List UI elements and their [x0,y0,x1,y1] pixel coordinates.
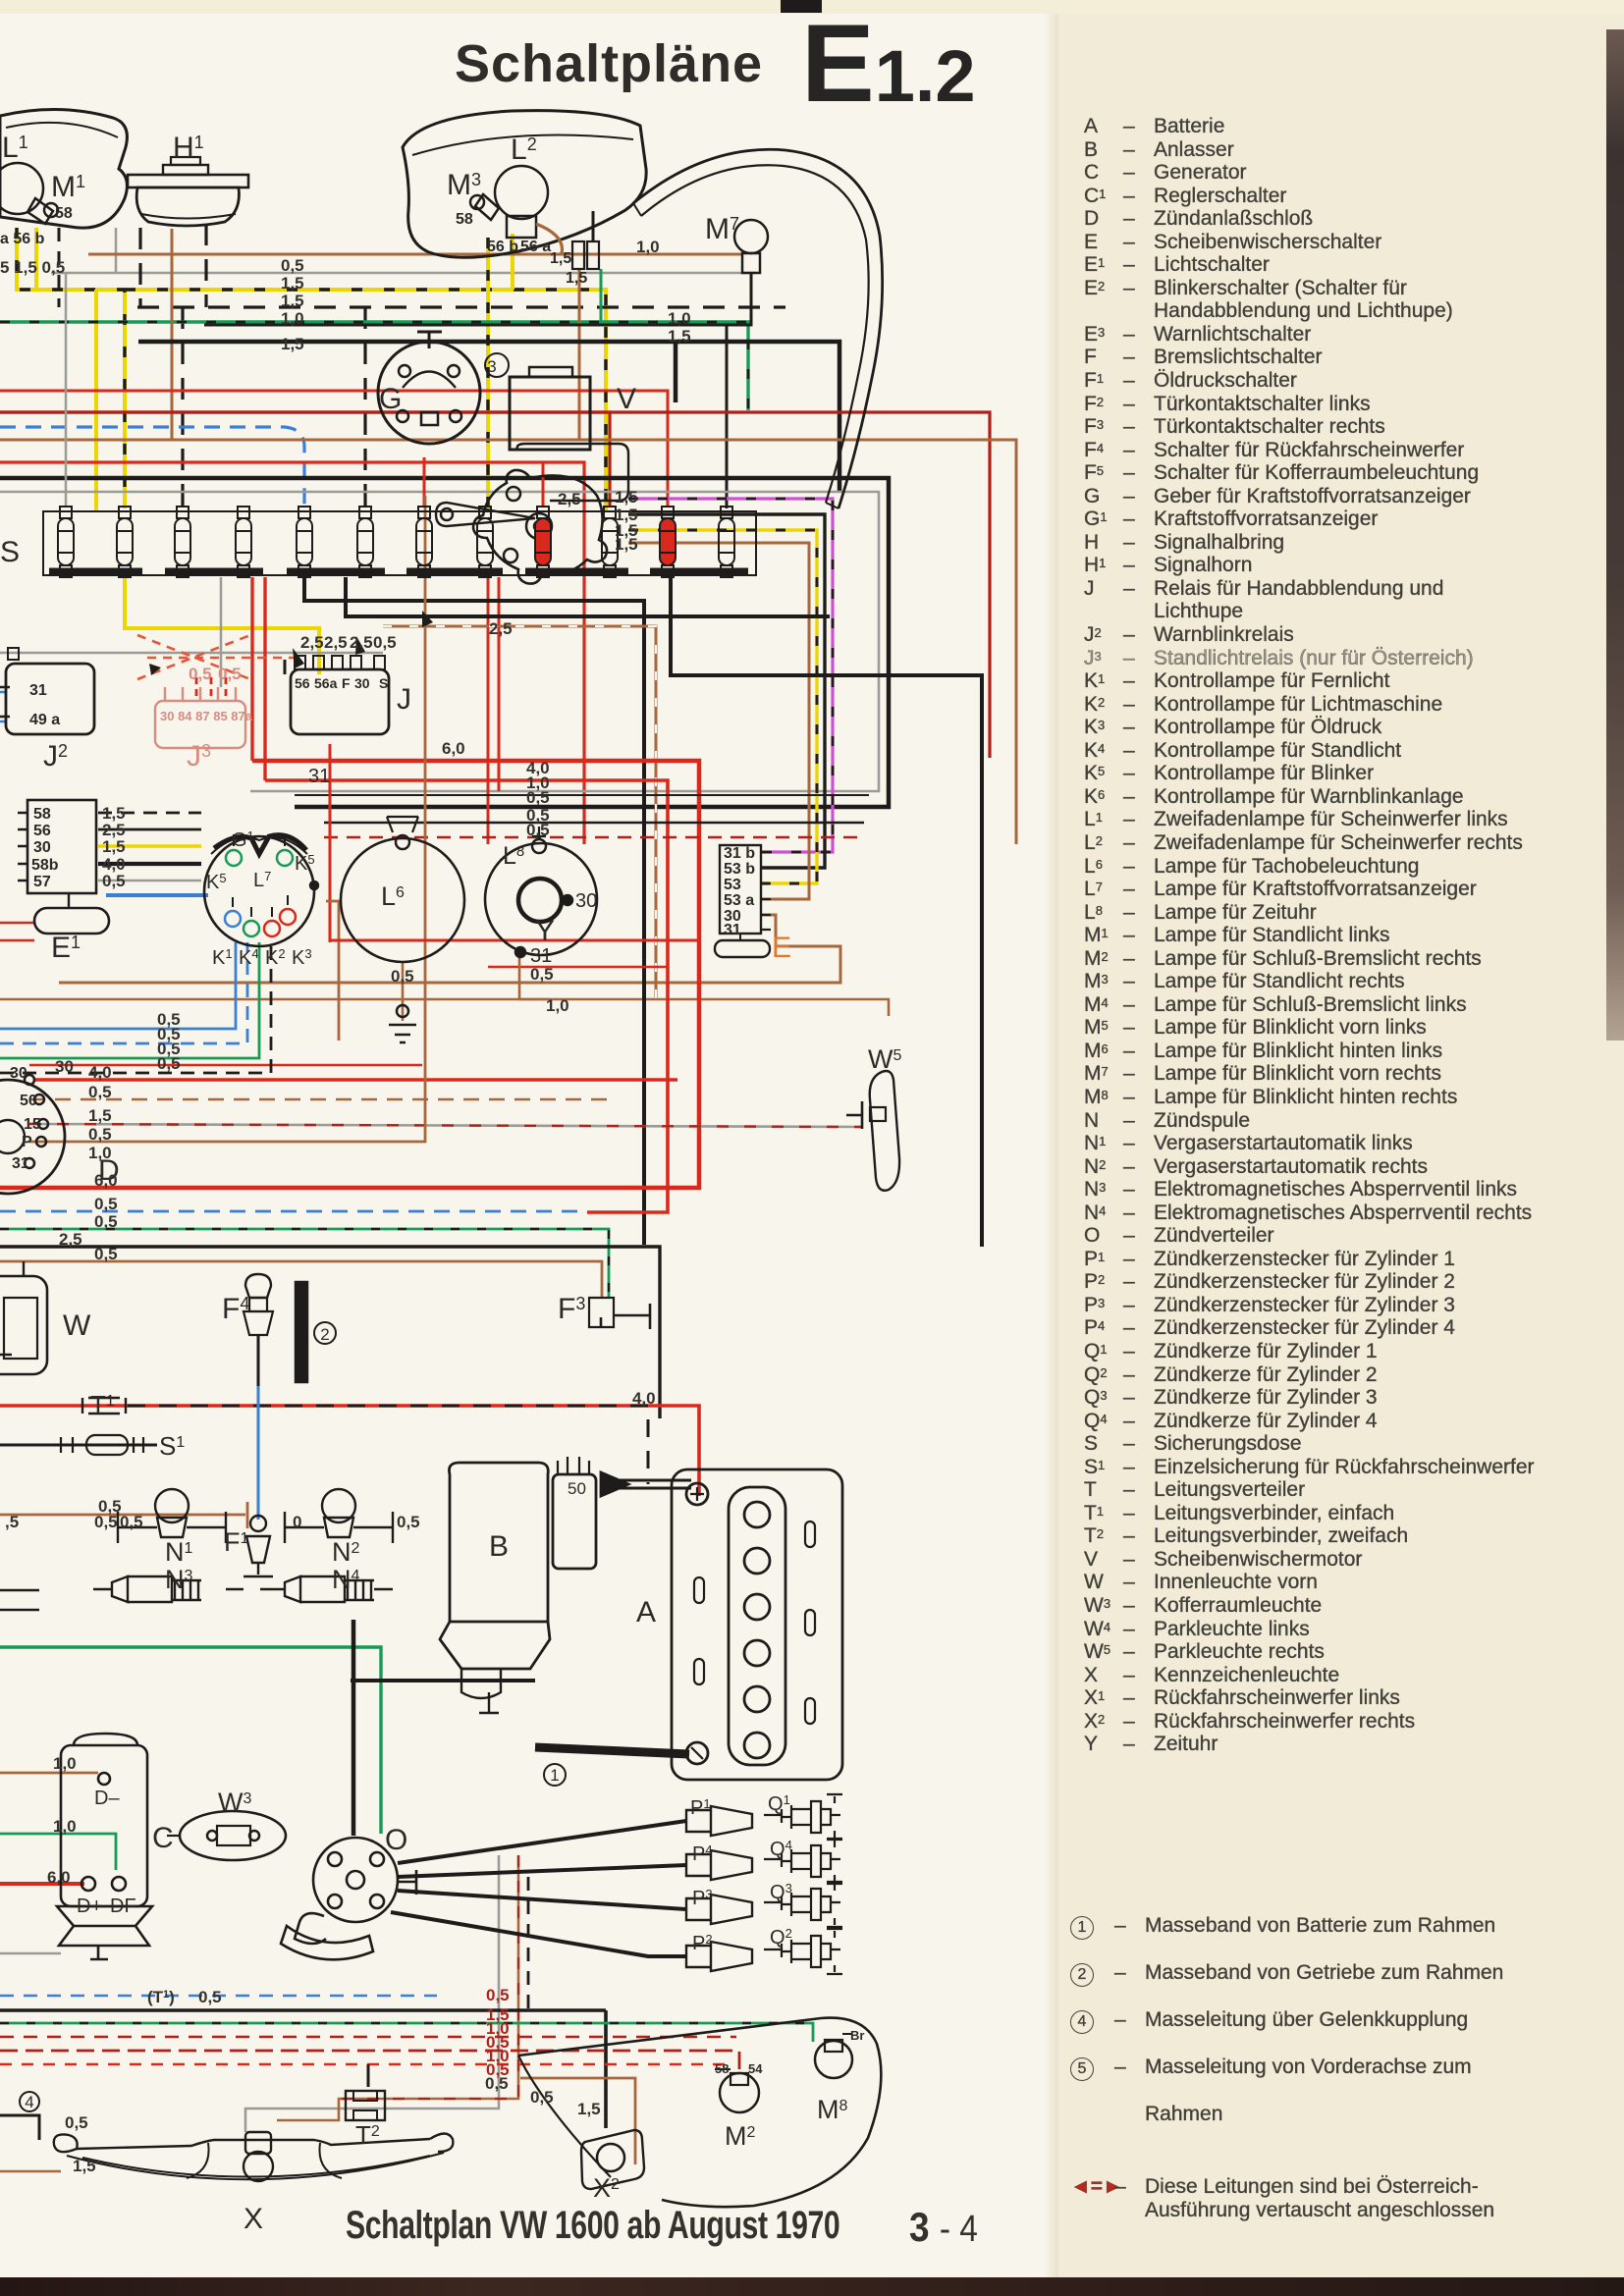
svg-text:G: G [379,383,402,415]
svg-text:1,5: 1,5 [615,488,638,507]
svg-text:49 a: 49 a [29,712,60,728]
svg-text:0,5: 0,5 [189,665,212,683]
svg-text:L8: L8 [503,842,524,870]
svg-text:1,0: 1,0 [53,1817,77,1836]
svg-text:K2: K2 [265,946,286,969]
svg-text:S: S [379,675,388,691]
svg-text:0,5: 0,5 [198,1988,222,2006]
svg-text:0,5: 0,5 [120,1513,143,1531]
svg-text:31: 31 [724,922,741,938]
svg-text:6,0: 6,0 [94,1171,118,1190]
svg-text:Br: Br [850,2028,864,2043]
svg-text:V: V [617,383,636,415]
svg-text:0,5: 0,5 [373,633,397,652]
svg-text:T1: T1 [90,1390,115,1419]
svg-text:30: 30 [55,1057,74,1076]
svg-text:1,0: 1,0 [88,1144,112,1162]
svg-text:T2: T2 [355,2120,380,2150]
svg-text:2,5: 2,5 [59,1230,82,1249]
svg-text:N1: N1 [165,1537,193,1567]
svg-text:58: 58 [55,205,73,222]
svg-text:3: 3 [487,357,496,376]
svg-text:0,5: 0,5 [94,1212,118,1231]
svg-text:P2: P2 [692,1932,713,1954]
svg-text:0,5: 0,5 [281,256,304,275]
svg-text:P: P [22,1134,32,1150]
svg-text:2,5: 2,5 [489,619,513,638]
svg-text:0,5: 0,5 [486,1986,510,2004]
svg-text:F3: F3 [558,1293,585,1325]
svg-text:31: 31 [308,766,330,787]
svg-text:53 a: 53 a [724,892,754,909]
svg-text:W5: W5 [868,1044,901,1074]
svg-text:56 b: 56 b [487,239,518,255]
svg-text:30: 30 [575,890,597,912]
svg-text:J3: J3 [187,740,211,773]
svg-text:2,5: 2,5 [324,633,348,652]
svg-text:1,0: 1,0 [53,1754,77,1773]
svg-text:L1: L1 [2,132,28,164]
svg-text:56: 56 [33,823,51,839]
svg-text:Q3: Q3 [770,1881,792,1903]
svg-text:0,5: 0,5 [88,1083,112,1101]
svg-text:2,5: 2,5 [300,633,324,652]
svg-text:58: 58 [456,211,473,228]
svg-text:53 b: 53 b [724,861,755,878]
svg-text:0,5: 0,5 [530,965,554,984]
svg-text:0,5: 0,5 [526,821,550,839]
svg-text:1,5: 1,5 [281,274,304,293]
svg-text:a 56 b: a 56 b [0,231,45,247]
svg-text:1,5: 1,5 [281,292,304,310]
svg-text:O: O [385,1824,407,1856]
svg-text:1,0: 1,0 [546,996,569,1015]
svg-text:P1: P1 [690,1796,711,1819]
svg-text:K5: K5 [206,871,227,893]
svg-text:L6: L6 [381,881,405,911]
svg-text:0,5: 0,5 [88,1125,112,1144]
svg-text:58: 58 [715,2061,729,2076]
svg-text:1,5: 1,5 [577,2100,601,2118]
svg-text:50: 50 [568,1479,586,1498]
svg-text:56a: 56a [314,675,338,691]
svg-text:0,5: 0,5 [218,665,242,683]
svg-text:0,5: 0,5 [397,1513,420,1531]
svg-text:53: 53 [724,877,741,893]
svg-text:W: W [63,1309,91,1342]
svg-text:30: 30 [354,675,370,691]
svg-text:50: 50 [20,1093,37,1109]
svg-text:4: 4 [25,2093,33,2111]
svg-text:J: J [397,683,411,716]
svg-text:Q4: Q4 [770,1838,792,1860]
svg-text:1,0: 1,0 [668,309,691,328]
svg-text:Q1: Q1 [768,1792,790,1815]
svg-text:57: 57 [33,874,51,890]
svg-text:B: B [489,1530,509,1563]
svg-text:1,0: 1,0 [636,238,660,256]
svg-text:30: 30 [33,839,51,856]
svg-text:1,5: 1,5 [615,535,638,554]
svg-text:30: 30 [10,1065,27,1082]
svg-text:K1: K1 [212,946,233,969]
svg-text:X: X [244,2203,263,2235]
svg-text:5 1,5 0,5: 5 1,5 0,5 [0,258,65,277]
svg-text:1,5: 1,5 [73,2157,96,2175]
svg-text:31: 31 [530,945,552,967]
svg-text:1: 1 [550,1766,559,1785]
svg-text:M2: M2 [725,2121,756,2151]
svg-text:30 84 87 85 87a: 30 84 87 85 87a [160,709,253,723]
svg-text:C: C [152,1822,174,1854]
svg-text:F: F [342,675,351,691]
svg-text:F1: F1 [224,1527,249,1557]
svg-text:1,5: 1,5 [566,270,587,287]
svg-text:E1: E1 [51,932,81,964]
svg-text:0,5: 0,5 [530,2088,554,2107]
svg-text:56 a: 56 a [520,239,551,255]
svg-text:2,5: 2,5 [350,633,373,652]
svg-text:0,5: 0,5 [486,2060,510,2079]
svg-text:D+: D+ [77,1896,102,1917]
svg-text:0,5: 0,5 [94,1513,118,1531]
svg-text:6,0: 6,0 [442,739,465,758]
svg-text:58: 58 [33,806,51,823]
svg-text:0,5: 0,5 [157,1054,181,1073]
svg-text:0,5: 0,5 [102,872,126,890]
svg-text:1,5: 1,5 [88,1106,112,1125]
svg-text:M8: M8 [817,2095,848,2124]
svg-text:P4: P4 [692,1842,713,1865]
svg-text:E: E [772,932,791,964]
svg-text:15: 15 [24,1116,41,1133]
svg-text:1,5: 1,5 [102,837,126,856]
svg-text:54: 54 [748,2061,763,2076]
svg-text:N3: N3 [165,1565,193,1594]
svg-text:X2: X2 [593,2173,620,2203]
svg-text:K3: K3 [292,946,312,969]
svg-text:1,5: 1,5 [550,250,571,267]
svg-text:S: S [0,536,20,568]
svg-text:31 b: 31 b [724,845,755,862]
svg-text:N2: N2 [332,1537,360,1567]
svg-text:P3: P3 [692,1887,713,1909]
svg-text:(T1): (T1) [147,1988,175,2006]
svg-text:G1: G1 [232,828,254,851]
svg-text:Q2: Q2 [770,1926,792,1949]
svg-text:4,0: 4,0 [88,1063,112,1082]
svg-text:31: 31 [12,1155,29,1172]
svg-text:2,5: 2,5 [558,490,581,508]
svg-text:0,5: 0,5 [65,2113,88,2132]
svg-text:Y: Y [535,915,555,947]
svg-text:1,5: 1,5 [668,327,691,346]
svg-text:DF: DF [110,1896,136,1917]
svg-text:D–: D– [94,1788,120,1809]
svg-text:31: 31 [29,682,47,699]
svg-text:0,5: 0,5 [526,788,550,807]
svg-text:L2: L2 [511,133,537,166]
svg-text:4,0: 4,0 [632,1389,656,1408]
svg-text:J2: J2 [43,740,68,773]
svg-text:56: 56 [295,675,310,691]
svg-text:0,5: 0,5 [94,1245,118,1263]
svg-text:1,5: 1,5 [281,335,304,353]
svg-text:0,5: 0,5 [391,967,414,986]
svg-text:A: A [636,1596,656,1629]
svg-text:0,5: 0,5 [94,1195,118,1213]
svg-text:6,0: 6,0 [47,1868,71,1887]
svg-text:2: 2 [320,1325,329,1344]
svg-text:L7: L7 [253,869,271,891]
svg-text:1,0: 1,0 [281,309,304,328]
svg-text:S1: S1 [159,1431,185,1461]
svg-text:K4: K4 [239,946,259,969]
svg-text:58b: 58b [31,857,59,874]
svg-text:M1: M1 [51,171,85,203]
